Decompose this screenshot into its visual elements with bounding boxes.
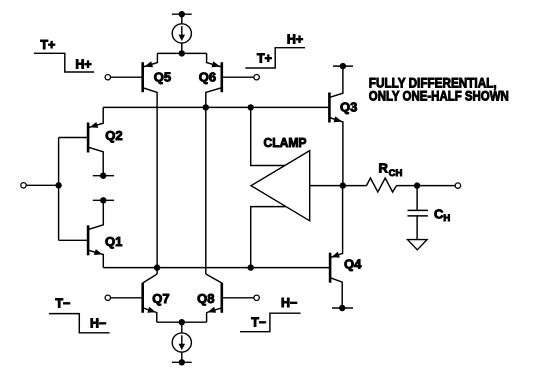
svg-text:R: R <box>379 161 389 176</box>
svg-text:Q5: Q5 <box>154 69 171 84</box>
svg-text:Q1: Q1 <box>105 234 122 249</box>
svg-text:T−: T− <box>55 297 70 311</box>
svg-text:Q4: Q4 <box>344 257 362 272</box>
svg-text:Q8: Q8 <box>197 291 214 306</box>
svg-text:H−: H− <box>90 316 106 330</box>
svg-text:H: H <box>443 213 450 224</box>
svg-text:Q2: Q2 <box>105 128 122 143</box>
svg-text:H+: H+ <box>287 33 303 47</box>
svg-text:ONLY ONE-HALF SHOWN: ONLY ONE-HALF SHOWN <box>369 87 509 103</box>
svg-text:Q6: Q6 <box>199 69 216 84</box>
svg-text:T+: T+ <box>257 52 272 66</box>
svg-text:H−: H− <box>281 296 297 310</box>
svg-text:Q3: Q3 <box>340 99 357 114</box>
svg-text:CH: CH <box>389 168 403 179</box>
svg-text:H+: H+ <box>75 57 91 71</box>
svg-text:Q7: Q7 <box>152 291 169 306</box>
svg-text:T+: T+ <box>40 38 55 52</box>
svg-text:CLAMP: CLAMP <box>264 135 307 150</box>
svg-text:T−: T− <box>251 316 266 330</box>
